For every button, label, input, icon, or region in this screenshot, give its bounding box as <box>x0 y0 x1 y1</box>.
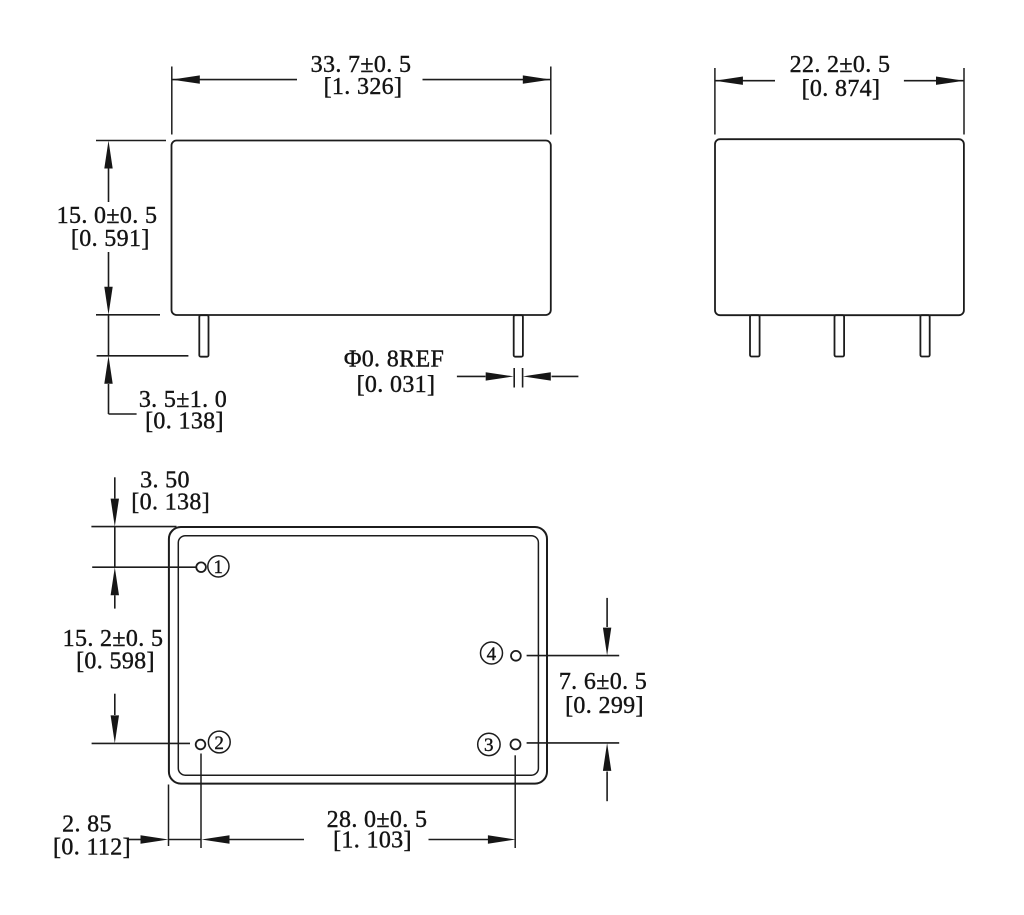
dim 22.2 extension line left <box>714 68 716 135</box>
dim 7.6 tick pin4 row <box>527 655 620 657</box>
svg-text:[0. 299]: [0. 299] <box>565 693 644 719</box>
side view pin 3 <box>920 315 929 356</box>
dim 3.50 tick pin1 row <box>92 566 195 568</box>
svg-text:[0. 591]: [0. 591] <box>71 226 150 252</box>
svg-text:[1. 326]: [1. 326] <box>324 74 403 100</box>
svg-text:1: 1 <box>213 557 223 578</box>
svg-text:22. 2±0. 5: 22. 2±0. 5 <box>790 52 891 78</box>
dim 28.0 extension line pin3 column <box>514 755 516 848</box>
svg-text:Φ0. 8REF: Φ0. 8REF <box>344 347 444 373</box>
dim 2.85/28.0 shared line <box>169 839 202 841</box>
dim 3.50 tick top edge <box>91 526 176 528</box>
dim 15.0 dimension line + arrows <box>108 168 110 202</box>
svg-text:[1. 103]: [1. 103] <box>333 828 412 854</box>
front view left pin <box>199 315 208 357</box>
pin 4 hole <box>511 651 521 661</box>
dim 3.5 tick at pin bottom <box>97 355 189 357</box>
pin 4 label circle <box>481 642 503 664</box>
svg-text:4: 4 <box>487 644 497 665</box>
dim 33.7 dimension line + arrows <box>172 79 297 81</box>
front view right pin <box>514 315 523 357</box>
side view pin 1 <box>750 315 760 356</box>
dim 2.85/28.0 extension line pin2 column <box>200 754 202 849</box>
svg-text:[0. 031]: [0. 031] <box>357 372 436 398</box>
svg-text:[0. 138]: [0. 138] <box>131 490 210 516</box>
pin 2 hole <box>196 740 206 750</box>
pin 1 label circle <box>208 556 229 577</box>
svg-text:[0. 874]: [0. 874] <box>802 76 881 102</box>
dim 7.6 dimension lines + arrows <box>606 598 608 627</box>
dim 2.85 leader + arrow <box>128 839 141 841</box>
dim 22.2 extension line right <box>963 68 965 135</box>
side view body <box>715 139 964 315</box>
dim 15.0 tick bottom <box>96 314 160 316</box>
bottom view inner outline <box>178 536 538 776</box>
bottom view outer outline <box>169 527 547 784</box>
dim 33.7 extension line left <box>171 67 173 135</box>
dim 7.6 tick pin3 row <box>527 742 620 744</box>
svg-text:[0. 138]: [0. 138] <box>145 409 224 435</box>
dim 15.2 tick pin2 row <box>92 742 190 744</box>
svg-text:7. 6±0. 5: 7. 6±0. 5 <box>559 669 647 695</box>
dim 3.5 dimension line + arrow <box>108 315 110 356</box>
dim phi0.8 tick marks <box>513 368 515 388</box>
svg-text:3: 3 <box>484 735 494 756</box>
dim 3.50 dimension line + arrows <box>114 477 116 498</box>
pin 1 hole <box>196 562 206 572</box>
front view body <box>172 141 551 316</box>
svg-text:[0. 112]: [0. 112] <box>53 835 131 861</box>
dim 2.85 extension line body edge <box>168 785 170 847</box>
dim 22.2 dimension line + arrows <box>715 80 775 82</box>
pin 3 label circle <box>478 733 500 755</box>
dim phi0.8 dimension line + arrows <box>457 375 486 377</box>
pin 2 label circle <box>208 731 230 753</box>
side view pin 2 <box>835 315 845 356</box>
dim 33.7 extension line right <box>550 67 552 135</box>
dim 28.0 dimension line + arrows <box>202 835 230 843</box>
svg-text:2: 2 <box>214 733 224 754</box>
pin 3 hole <box>511 739 521 749</box>
svg-text:[0. 598]: [0. 598] <box>76 649 155 675</box>
dim 15.0 tick top <box>96 140 166 142</box>
dim 15.2 dimension line + arrow <box>114 694 116 715</box>
